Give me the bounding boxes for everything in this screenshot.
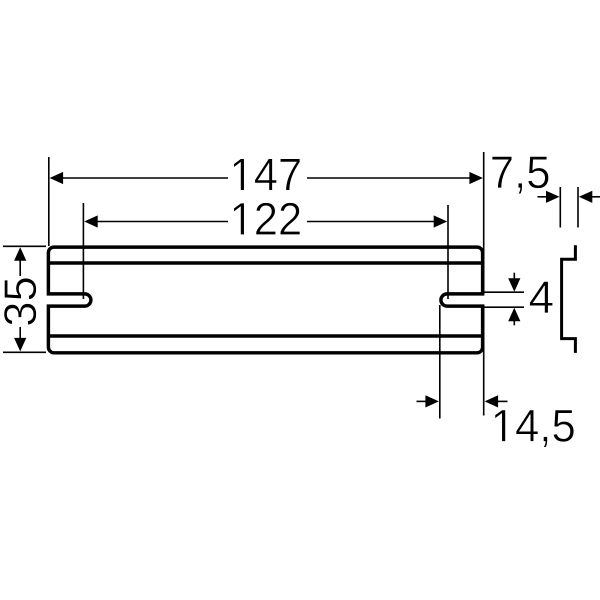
bottom bend line	[50, 334, 481, 337]
extension line 35 bottom	[3, 351, 46, 353]
dimension text 4	[530, 281, 553, 313]
extension line 4 bottom (slot edge)	[484, 306, 524, 308]
extension line 35 top	[3, 245, 46, 247]
extension line left edge (147)	[48, 157, 50, 246]
extension line right edge (147 / 14,5)	[483, 152, 485, 294]
extension line 7,5 right	[577, 187, 579, 228]
dimension line 35	[14, 247, 26, 351]
extension line 7,5 left	[559, 187, 561, 228]
extension line right slot end (14,5)	[439, 305, 441, 419]
dimension text 14,5	[495, 410, 574, 448]
extension line left slot (122)	[82, 203, 84, 299]
dimension line 7,5 (arrows outside)	[538, 191, 600, 203]
extension line 4 top (slot edge)	[484, 291, 524, 293]
dimension text 7,5	[492, 156, 549, 194]
dimension line 4 (arrows outside)	[508, 273, 520, 326]
dimension text 122	[234, 203, 300, 235]
dimension text 35 (rotated)	[4, 278, 37, 325]
rail body outline (front view)	[48, 247, 482, 353]
extension line right slot (122)	[447, 205, 449, 299]
dimension line 147	[50, 172, 483, 184]
top bend line	[50, 261, 481, 264]
dimension text 147	[234, 159, 300, 191]
side profile (right)	[562, 245, 576, 353]
dimension line 14,5 (arrows outside)	[417, 395, 508, 407]
dimension line 122	[84, 215, 447, 227]
